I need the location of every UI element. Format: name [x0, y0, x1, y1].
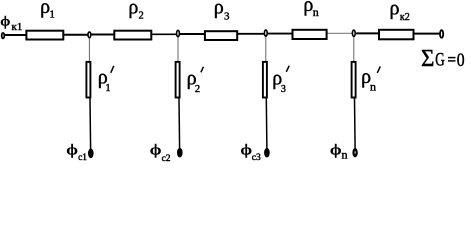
svg-text:n: n [370, 80, 376, 94]
svg-text:1: 1 [105, 83, 110, 94]
svg-text:G: G [435, 51, 445, 71]
svg-text:3: 3 [224, 10, 230, 22]
svg-text:1: 1 [50, 10, 55, 21]
svg-text:3: 3 [281, 84, 286, 95]
svg-text:к1: к1 [12, 21, 23, 33]
svg-text:c1: c1 [78, 153, 87, 163]
svg-text:ϕ: ϕ [241, 142, 253, 159]
svg-text:к2: к2 [400, 12, 410, 23]
svg-text:Σ: Σ [421, 46, 434, 73]
svg-text:n: n [342, 148, 348, 162]
svg-text:ϕ: ϕ [0, 13, 10, 29]
svg-text:0: 0 [457, 50, 465, 70]
svg-text:ρ: ρ [390, 0, 400, 19]
svg-text:c3: c3 [252, 153, 261, 163]
svg-text:ϕ: ϕ [150, 141, 162, 158]
svg-text:ϕ: ϕ [330, 141, 342, 158]
svg-text:ρ: ρ [128, 0, 138, 18]
svg-text:ρ: ρ [214, 0, 224, 19]
svg-text:2: 2 [139, 10, 144, 21]
svg-text:ϕ: ϕ [66, 142, 78, 159]
svg-text:c2: c2 [162, 154, 171, 163]
svg-text:n: n [313, 5, 319, 19]
svg-text:2: 2 [195, 84, 200, 95]
